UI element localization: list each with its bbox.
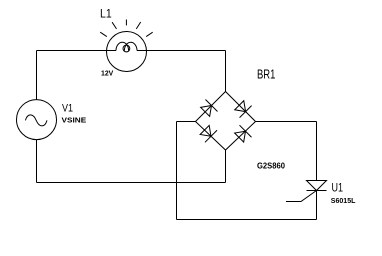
bridge rectifier BR1 diamond [196,92,256,151]
svg-text:U1: U1 [332,181,344,195]
svg-text:L1: L1 [100,7,112,21]
wire left vertical (top wire to V1 plus) [36,51,38,100]
svg-text:G2S860: G2S860 [257,162,286,171]
wire V1 bottom vertical [36,140,38,183]
wire top left horizontal (V1 to L1) [37,50,107,52]
lamp L1 rays [125,20,127,26]
diode D-topleft of BR1 [199,99,217,117]
svg-text:V1: V1 [62,103,73,115]
lamp L1 filament wire stubs [107,50,147,52]
diode D-topright of BR1 [233,99,251,117]
lamp L1 [107,32,147,72]
wire bridge left to corner [177,121,196,123]
svg-text:VSINE: VSINE [62,115,87,124]
svg-text:S6015L: S6015L [331,196,356,205]
diode D-bottomright of BR1 [233,125,251,143]
lamp L1 filament [116,42,129,50]
wire bridge bottom stem [225,150,227,183]
wire bottom horizontal 2 (to SCR cathode) [177,219,317,221]
SCR U1 gate wire [286,191,317,202]
wire left corner vertical down [176,122,178,220]
wire top right horizontal (L1 to bridge) [147,50,226,52]
voltage source V1 [17,100,57,140]
SCR U1 triangle [307,181,327,191]
SCR U1 cathode bar [307,190,327,192]
svg-text:BR1: BR1 [257,68,275,82]
wire SCR cathode vertical [316,191,318,220]
diode D-bottomleft of BR1 [199,124,217,142]
svg-text:12V: 12V [101,69,113,78]
wire bridge right to SCR anode [256,121,317,123]
wire SCR anode vertical [316,122,318,181]
wire right vertical (top wire down to bridge top) [225,51,227,92]
wire bottom horizontal (V1 to bridge bottom) [37,182,226,184]
